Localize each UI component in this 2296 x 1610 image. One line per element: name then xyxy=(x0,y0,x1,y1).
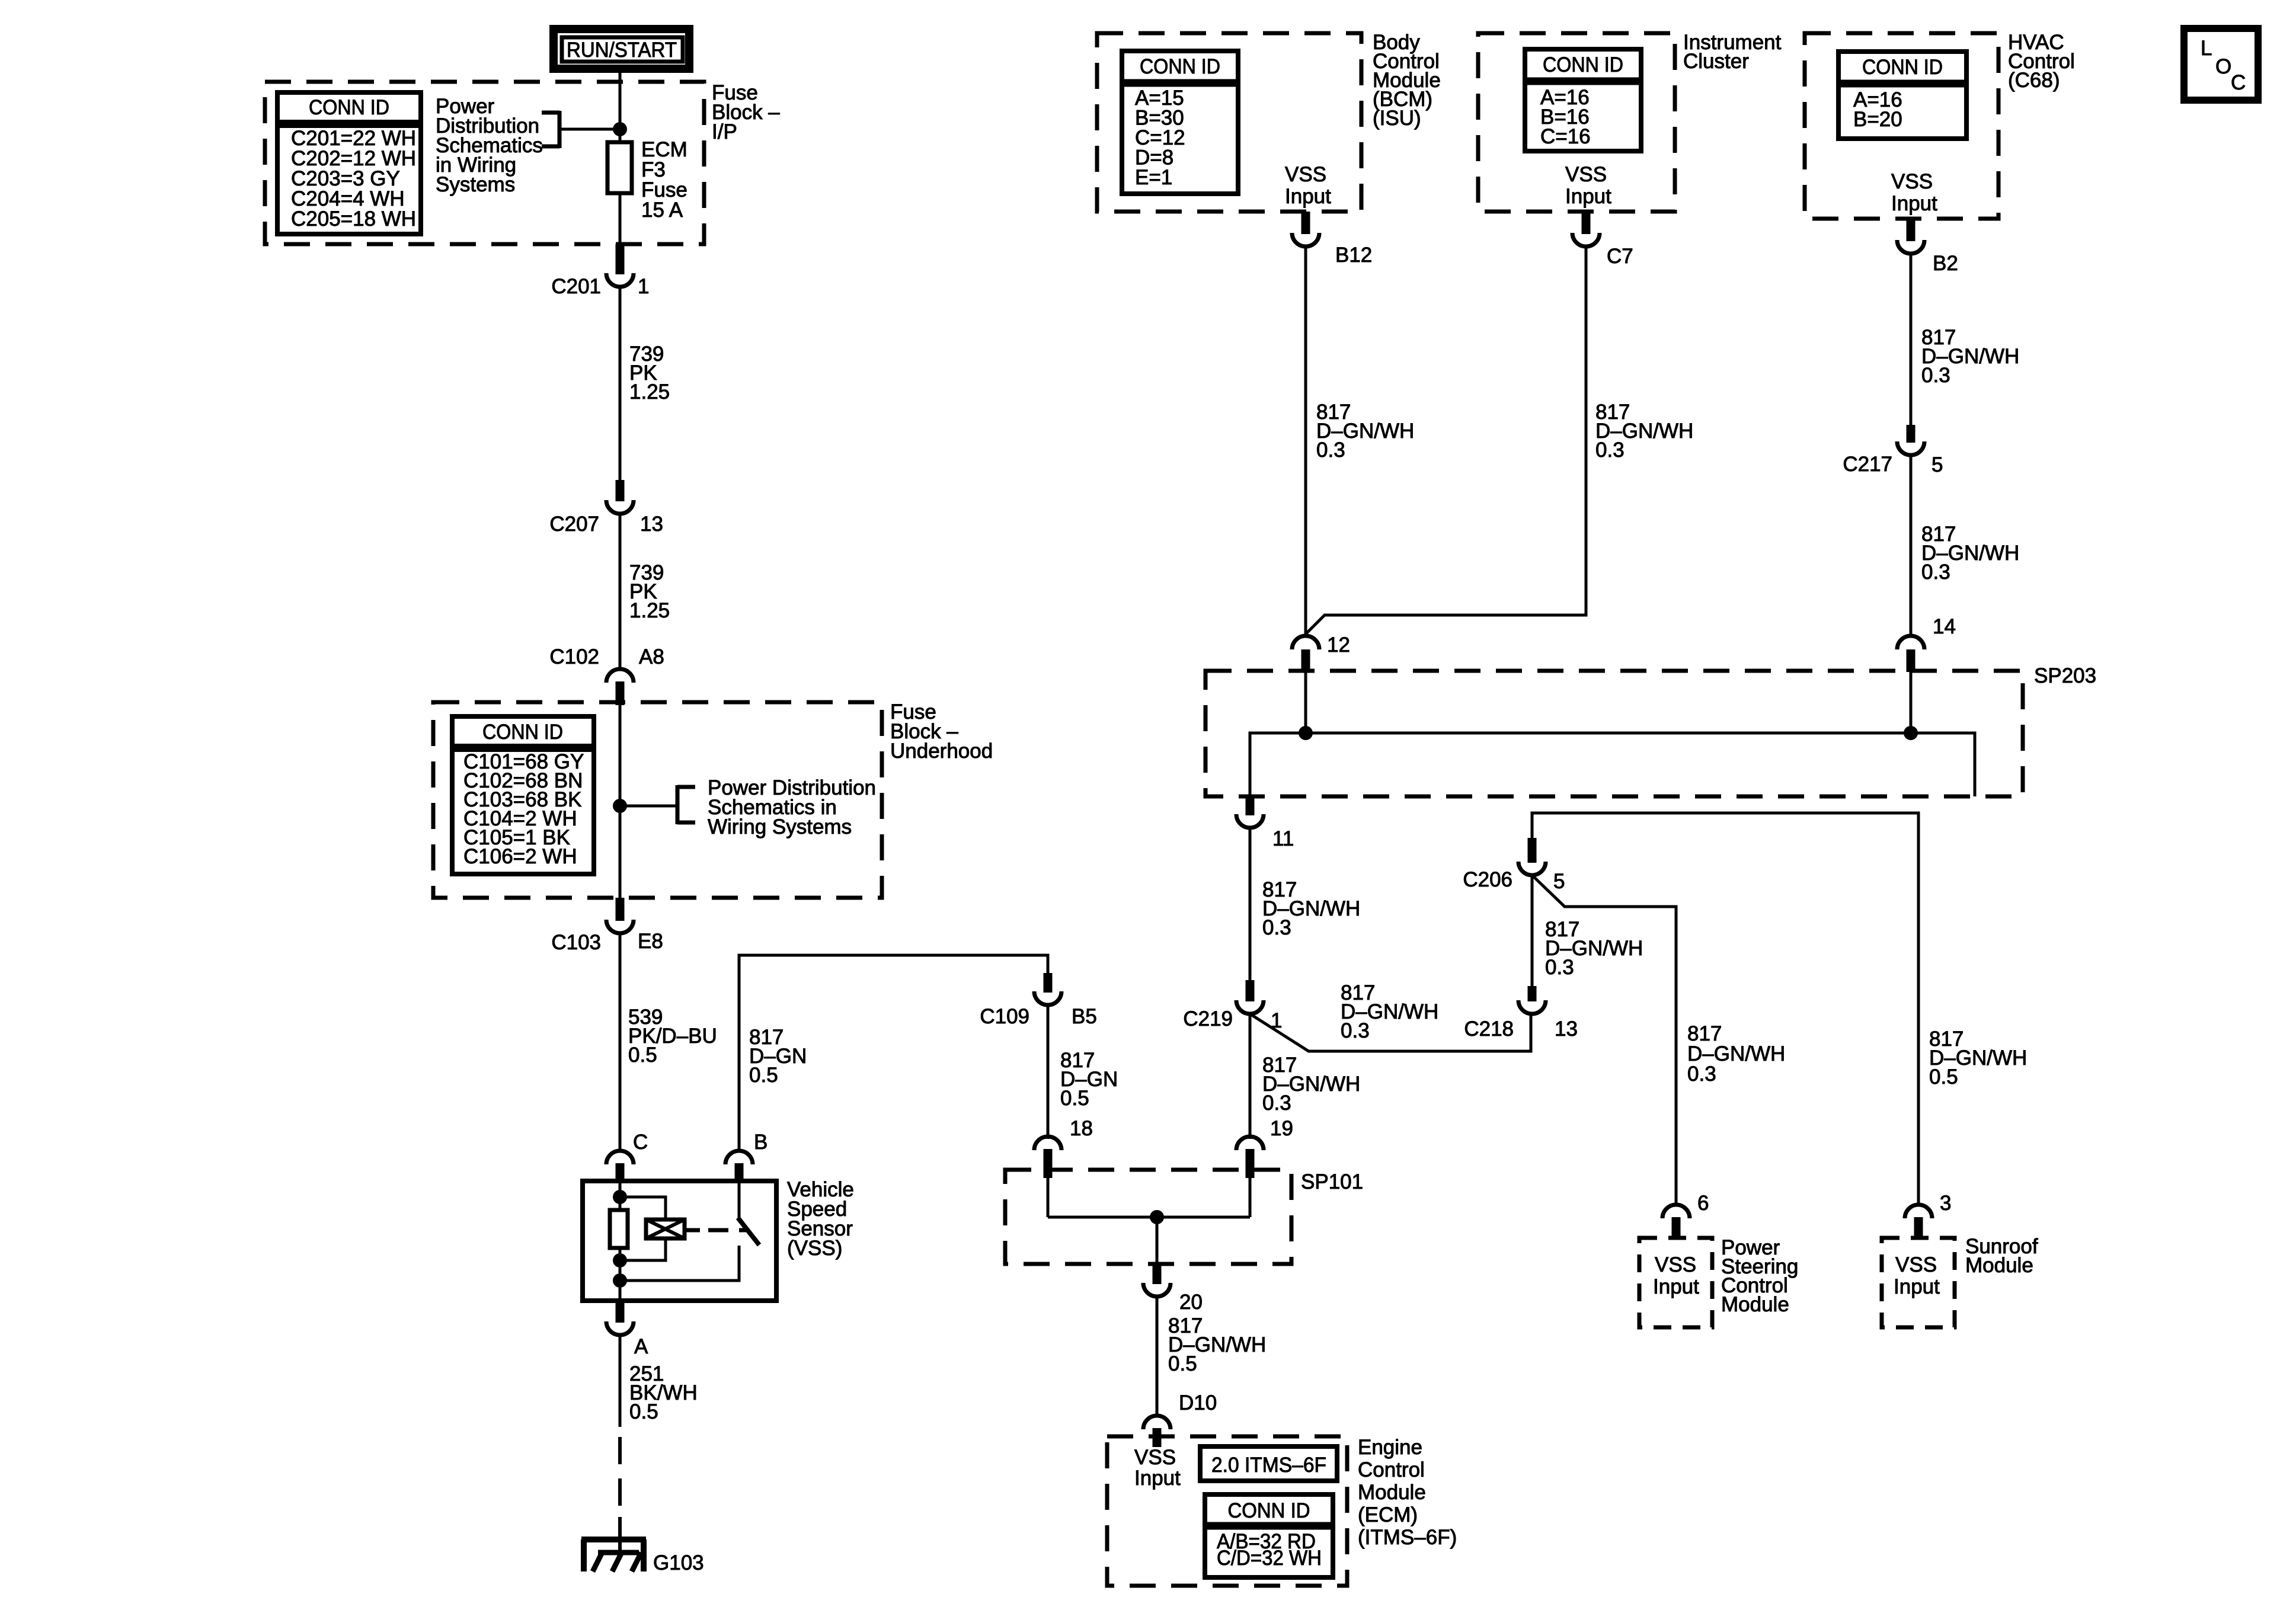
power feed RUN/START xyxy=(554,29,689,69)
svg-text:CONN ID: CONN ID xyxy=(1228,1499,1310,1522)
connector 18 (SP101) xyxy=(1034,1117,1093,1178)
svg-text:Input: Input xyxy=(1134,1467,1181,1490)
node: VSS top junction xyxy=(613,1190,627,1204)
svg-text:0.3: 0.3 xyxy=(1687,1062,1716,1086)
label Instrument Cluster xyxy=(1683,31,1782,73)
wire inside VSS from pin C xyxy=(619,1181,622,1210)
svg-text:Control: Control xyxy=(1358,1458,1425,1481)
svg-text:C109: C109 xyxy=(980,1005,1029,1028)
svg-text:0.5: 0.5 xyxy=(749,1064,778,1087)
svg-text:5: 5 xyxy=(1553,870,1565,893)
svg-text:VSS: VSS xyxy=(1285,163,1326,186)
svg-text:(ISU): (ISU) xyxy=(1373,107,1421,130)
label VSS Input (BCM) xyxy=(1285,163,1331,208)
wire label 817 D-GN/WH 0.5 xyxy=(1168,1314,1266,1375)
svg-text:C103: C103 xyxy=(551,931,601,954)
svg-text:C102: C102 xyxy=(549,645,599,668)
svg-text:0.3: 0.3 xyxy=(1921,561,1950,584)
svg-text:14: 14 xyxy=(1933,615,1956,638)
wire 739 PK 1.25 (second segment) xyxy=(619,514,622,670)
svg-text:0.3: 0.3 xyxy=(1341,1019,1370,1042)
wire 817 D-GN/WH 0.5 from 20 to D10 xyxy=(1156,1297,1159,1417)
svg-text:E8: E8 xyxy=(638,930,663,953)
svg-text:C219: C219 xyxy=(1183,1007,1233,1030)
CONN ID table (BCM) xyxy=(1122,51,1238,194)
svg-text:0.5: 0.5 xyxy=(1929,1065,1958,1089)
connector 14 (into SP203) xyxy=(1897,615,1956,672)
connector 3 (sunroof module) xyxy=(1905,1192,1951,1238)
svg-text:VSS: VSS xyxy=(1134,1446,1176,1469)
connector D10 (ECM) xyxy=(1143,1391,1217,1447)
note Power Distribution Schematics in Wiring Systems (I/P) xyxy=(436,95,620,196)
wire label 817 D-GN/WH 0.3 xyxy=(1595,401,1693,462)
connector C109 pin B5 xyxy=(980,973,1096,1028)
svg-text:CONN ID: CONN ID xyxy=(309,96,389,119)
wire switch to bottom junction xyxy=(620,1246,739,1281)
wire label 539 PK/D-BU 0.5 xyxy=(628,1006,717,1067)
wire label 817 D-GN/WH 0.3 xyxy=(1341,981,1438,1042)
wire 817 D-GN/WH 0.3 from C206 to C218 xyxy=(1531,875,1534,986)
svg-text:0.5: 0.5 xyxy=(1168,1352,1197,1375)
svg-text:Cluster: Cluster xyxy=(1683,50,1749,73)
dashed actuator link xyxy=(685,1228,748,1233)
svg-text:B=20: B=20 xyxy=(1853,108,1902,131)
connector C201 pin 1 xyxy=(551,244,649,298)
svg-text:C: C xyxy=(633,1131,648,1154)
svg-text:(VSS): (VSS) xyxy=(787,1237,842,1260)
svg-text:O: O xyxy=(2215,55,2231,78)
sensor pickup coil (crossed box) xyxy=(646,1219,685,1238)
svg-text:C7: C7 xyxy=(1607,245,1633,268)
svg-text:G103: G103 xyxy=(653,1551,704,1574)
CONN ID table (fuse block underhood) xyxy=(452,716,594,874)
svg-text:12: 12 xyxy=(1327,633,1350,657)
svg-text:A8: A8 xyxy=(639,645,664,668)
connector VSS pin A xyxy=(606,1301,648,1358)
svg-text:CONN ID: CONN ID xyxy=(1140,55,1220,78)
splice pack SP203 dashed box xyxy=(1205,671,2023,796)
svg-text:C106=2 WH: C106=2 WH xyxy=(463,845,577,868)
svg-text:Input: Input xyxy=(1285,185,1331,208)
wire label 739 PK 1.25 xyxy=(629,343,670,404)
wire label 817 D-GN/WH 0.3 xyxy=(1687,1022,1785,1086)
svg-text:C206: C206 xyxy=(1463,868,1512,891)
svg-text:0.3: 0.3 xyxy=(1921,364,1950,387)
svg-text:CONN ID: CONN ID xyxy=(1862,56,1943,79)
connector 11 (out of SP203) xyxy=(1236,796,1294,850)
svg-text:0.3: 0.3 xyxy=(1316,438,1345,462)
svg-text:C: C xyxy=(2231,71,2246,94)
connector C206 pin 5 xyxy=(1463,838,1565,893)
svg-text:0.5: 0.5 xyxy=(629,1400,658,1423)
svg-text:Wiring Systems: Wiring Systems xyxy=(708,815,852,838)
wire label 817 D-GN/WH 0.3 xyxy=(1262,1054,1360,1115)
svg-text:0.3: 0.3 xyxy=(1262,1092,1291,1115)
vehicle speed sensor (VSS) box xyxy=(583,1181,776,1301)
svg-text:2.0 ITMS–6F: 2.0 ITMS–6F xyxy=(1211,1454,1326,1477)
node: SP101 splice junction xyxy=(1150,1210,1164,1224)
svg-text:C205=18 WH: C205=18 WH xyxy=(291,207,416,231)
ground G103 xyxy=(581,1517,704,1574)
connector VSS pin B xyxy=(725,1131,768,1181)
svg-text:VSS: VSS xyxy=(1891,170,1933,193)
label VSS Input (HVAC) xyxy=(1891,170,1937,215)
svg-text:C201: C201 xyxy=(551,275,601,298)
wire 817 D-GN/WH 0.3 from C219 down to SP101 pin 19 xyxy=(1249,1014,1252,1139)
connector C217 pin 5 xyxy=(1843,425,1943,476)
bus wire inside SP203 xyxy=(1250,672,1975,796)
svg-text:0.5: 0.5 xyxy=(628,1044,657,1067)
connector C103 pin E8 xyxy=(551,898,663,954)
svg-text:11: 11 xyxy=(1272,827,1294,850)
wire label 817 D-GN/WH 0.3 xyxy=(1262,878,1360,939)
node: VSS lower junction 2 xyxy=(613,1273,627,1288)
svg-text:SP203: SP203 xyxy=(2034,664,2096,687)
switch blade (VSS reed switch) xyxy=(738,1218,759,1245)
wire (dashed continuation to ground) xyxy=(618,1437,622,1526)
label Vehicle Speed Sensor (VSS) xyxy=(787,1178,854,1260)
wire from RUN/START to fuse F3 xyxy=(619,73,622,142)
wire 817 D-GN/WH 0.3 from B12 xyxy=(1304,247,1307,637)
note Power Distribution Schematics in Wiring Systems (underhood) xyxy=(620,776,876,838)
splice pack SP101 dashed box xyxy=(1005,1170,1291,1264)
wire label 817 D-GN/WH 0.3 xyxy=(1545,918,1643,979)
locator symbol L O C xyxy=(2184,28,2258,100)
wire loop to pickup coil xyxy=(620,1197,666,1219)
svg-text:0.3: 0.3 xyxy=(1262,916,1291,939)
svg-text:5: 5 xyxy=(1932,453,1943,476)
wire 739 PK 1.25 xyxy=(619,287,622,501)
wire label 817 D-GN/WH 0.5 (sunroof feed) xyxy=(1929,1028,2027,1089)
wire from SP203 to C206 / sunroof branch xyxy=(1532,813,1918,1205)
sunroof VSS input dashed box xyxy=(1882,1238,1955,1327)
power steering VSS input dashed box xyxy=(1639,1238,1712,1327)
wire 817 D-GN/WH 0.3 from 11 to C219 xyxy=(1249,827,1252,980)
svg-text:I/P: I/P xyxy=(712,120,737,143)
svg-text:18: 18 xyxy=(1070,1117,1093,1140)
wire from pin B to switch xyxy=(738,1181,741,1219)
connector C218 pin 13 xyxy=(1464,986,1578,1041)
engine control module (ECM) dashed box xyxy=(1107,1436,1347,1586)
node: junction on wire in underhood fuse block xyxy=(613,799,627,813)
connector C102 pin A8 xyxy=(549,645,664,705)
label Fuse Block - Underhood xyxy=(890,700,993,763)
body control module (BCM) dashed box xyxy=(1097,33,1361,212)
CONN ID table (ECM) xyxy=(1205,1494,1333,1577)
svg-text:19: 19 xyxy=(1270,1117,1293,1140)
connector B2 xyxy=(1897,219,1958,275)
svg-text:0.5: 0.5 xyxy=(1060,1087,1089,1110)
wire 817 D-GN 0.5 from VSS pin B to C109 xyxy=(739,955,1048,1151)
connector 12 (into SP203) xyxy=(1292,633,1350,672)
svg-text:VSS: VSS xyxy=(1895,1253,1937,1276)
svg-text:Input: Input xyxy=(1653,1275,1699,1298)
node: junction on feed wire xyxy=(613,122,627,136)
svg-text:D10: D10 xyxy=(1179,1391,1217,1414)
svg-text:Underhood: Underhood xyxy=(890,740,993,763)
svg-text:A: A xyxy=(634,1335,648,1358)
instrument cluster dashed box xyxy=(1478,33,1675,212)
CONN ID table (HVAC) xyxy=(1838,52,1966,139)
svg-text:20: 20 xyxy=(1179,1291,1203,1314)
svg-text:C207: C207 xyxy=(549,513,599,536)
svg-text:(C68): (C68) xyxy=(2008,69,2060,92)
HVAC control dashed box xyxy=(1805,33,1998,219)
label Engine Control Module (ECM) (ITMS-6F) xyxy=(1358,1436,1457,1549)
svg-text:6: 6 xyxy=(1697,1192,1709,1215)
wire 817 D-GN/WH 0.3 from C217 to splice connector 14 xyxy=(1910,456,1913,637)
wire 539 PK/D-BU 0.5 xyxy=(619,933,622,1151)
node: splice junction (14) xyxy=(1904,726,1918,740)
connector C7 xyxy=(1572,212,1633,268)
wire label 817 D-GN 0.5 xyxy=(1060,1049,1118,1110)
svg-text:13: 13 xyxy=(640,513,663,536)
wire inside underhood fuse block xyxy=(619,705,622,898)
wire label 251 BK/WH 0.5 xyxy=(629,1362,698,1423)
connector 19 (SP101) xyxy=(1236,1117,1293,1178)
svg-text:SP101: SP101 xyxy=(1301,1170,1363,1193)
svg-text:L: L xyxy=(2201,37,2212,60)
svg-text:(ITMS–6F): (ITMS–6F) xyxy=(1358,1526,1457,1549)
svg-text:B12: B12 xyxy=(1335,244,1372,267)
connector 20 (out of SP101) xyxy=(1143,1264,1203,1314)
CONN ID table (instrument cluster) xyxy=(1525,49,1641,151)
wire C219 branch to C218 pin 13 xyxy=(1250,1014,1531,1051)
svg-text:CONN ID: CONN ID xyxy=(1543,53,1623,76)
svg-text:C218: C218 xyxy=(1464,1017,1514,1041)
label 2.0 ITMS-6F xyxy=(1200,1446,1337,1481)
fuse F3 ECM 15 A xyxy=(607,138,687,222)
resistor (VSS internal) xyxy=(610,1210,628,1248)
svg-text:1.25: 1.25 xyxy=(629,599,670,622)
svg-text:B: B xyxy=(754,1131,768,1154)
label VSS Input (ECM) xyxy=(1134,1446,1181,1490)
svg-text:1.25: 1.25 xyxy=(629,380,670,404)
svg-text:C=16: C=16 xyxy=(1540,125,1591,148)
wire label 817 D-GN/WH 0.3 xyxy=(1316,401,1414,462)
wire 817 D-GN 0.5 from C109 to SP101 pin 18 xyxy=(1047,1005,1050,1139)
label VSS Input (sunroof) xyxy=(1894,1253,1940,1298)
connector B12 xyxy=(1292,212,1372,267)
node: splice junction (12) xyxy=(1299,726,1313,740)
svg-text:Module: Module xyxy=(1358,1481,1426,1504)
wire fuse to C201 xyxy=(619,193,622,274)
wire label 817 D-GN 0.5 xyxy=(749,1026,807,1087)
svg-text:VSS: VSS xyxy=(1655,1253,1696,1276)
svg-text:Input: Input xyxy=(1565,185,1611,208)
connector VSS pin C xyxy=(606,1131,648,1181)
svg-text:RUN/START: RUN/START xyxy=(567,39,677,62)
label Body Control Module (BCM) (ISU) xyxy=(1373,31,1441,130)
svg-text:0.3: 0.3 xyxy=(1595,438,1625,462)
svg-text:Engine: Engine xyxy=(1358,1436,1422,1459)
fuse block - underhood dashed box xyxy=(433,702,882,898)
wire label 739 PK 1.25 xyxy=(629,561,670,622)
svg-text:Input: Input xyxy=(1891,192,1937,215)
svg-text:B2: B2 xyxy=(1933,252,1958,275)
label VSS Input (instrument cluster) xyxy=(1565,163,1611,208)
svg-text:Input: Input xyxy=(1894,1275,1940,1298)
wire label 817 D-GN/WH 0.3 xyxy=(1921,523,2019,584)
svg-text:1: 1 xyxy=(638,275,649,298)
label Sunroof Module xyxy=(1965,1235,2038,1277)
wire 817 D-GN/WH 0.3 from C206 to power steering pin 6 xyxy=(1532,875,1676,1206)
svg-text:VSS: VSS xyxy=(1565,163,1607,186)
svg-text:Systems: Systems xyxy=(436,173,515,196)
svg-text:13: 13 xyxy=(1555,1017,1578,1041)
CONN ID table (fuse block I/P) xyxy=(277,92,421,234)
label VSS Input (power steering) xyxy=(1653,1253,1699,1298)
connector 6 (power steering control module) xyxy=(1662,1192,1709,1238)
label Power Steering Control Module xyxy=(1721,1236,1798,1316)
wires inside SP101 xyxy=(1048,1176,1250,1264)
svg-text:C217: C217 xyxy=(1843,453,1892,476)
label Fuse Block - I/P xyxy=(712,81,780,143)
label HVAC Control (C68) xyxy=(2008,31,2075,92)
connector C207 pin 13 xyxy=(549,480,663,536)
svg-text:(ECM): (ECM) xyxy=(1358,1503,1418,1526)
svg-text:15 A: 15 A xyxy=(641,199,683,222)
svg-text:CONN ID: CONN ID xyxy=(482,721,563,744)
wire 251 BK/WH 0.5 xyxy=(619,1335,622,1427)
wire 817 D-GN/WH 0.3 from B2 to C217 xyxy=(1910,254,1913,426)
svg-text:B5: B5 xyxy=(1072,1005,1097,1028)
svg-text:Module: Module xyxy=(1721,1293,1789,1316)
svg-text:0.3: 0.3 xyxy=(1545,956,1574,979)
wire resistor to bottom xyxy=(619,1248,622,1301)
svg-text:E=1: E=1 xyxy=(1135,166,1172,189)
svg-text:C/D=32 WH: C/D=32 WH xyxy=(1217,1547,1322,1570)
svg-text:Module: Module xyxy=(1965,1254,2033,1277)
node: VSS lower junction 1 xyxy=(613,1253,627,1267)
connector C219 pin 1 xyxy=(1183,980,1282,1032)
fuse block - I/P dashed box xyxy=(265,82,704,244)
wire 817 D-GN/WH 0.3 from C7 to splice connector 12 xyxy=(1306,247,1586,634)
wire label 817 D-GN/WH 0.3 xyxy=(1921,326,2019,387)
svg-text:3: 3 xyxy=(1940,1192,1951,1215)
